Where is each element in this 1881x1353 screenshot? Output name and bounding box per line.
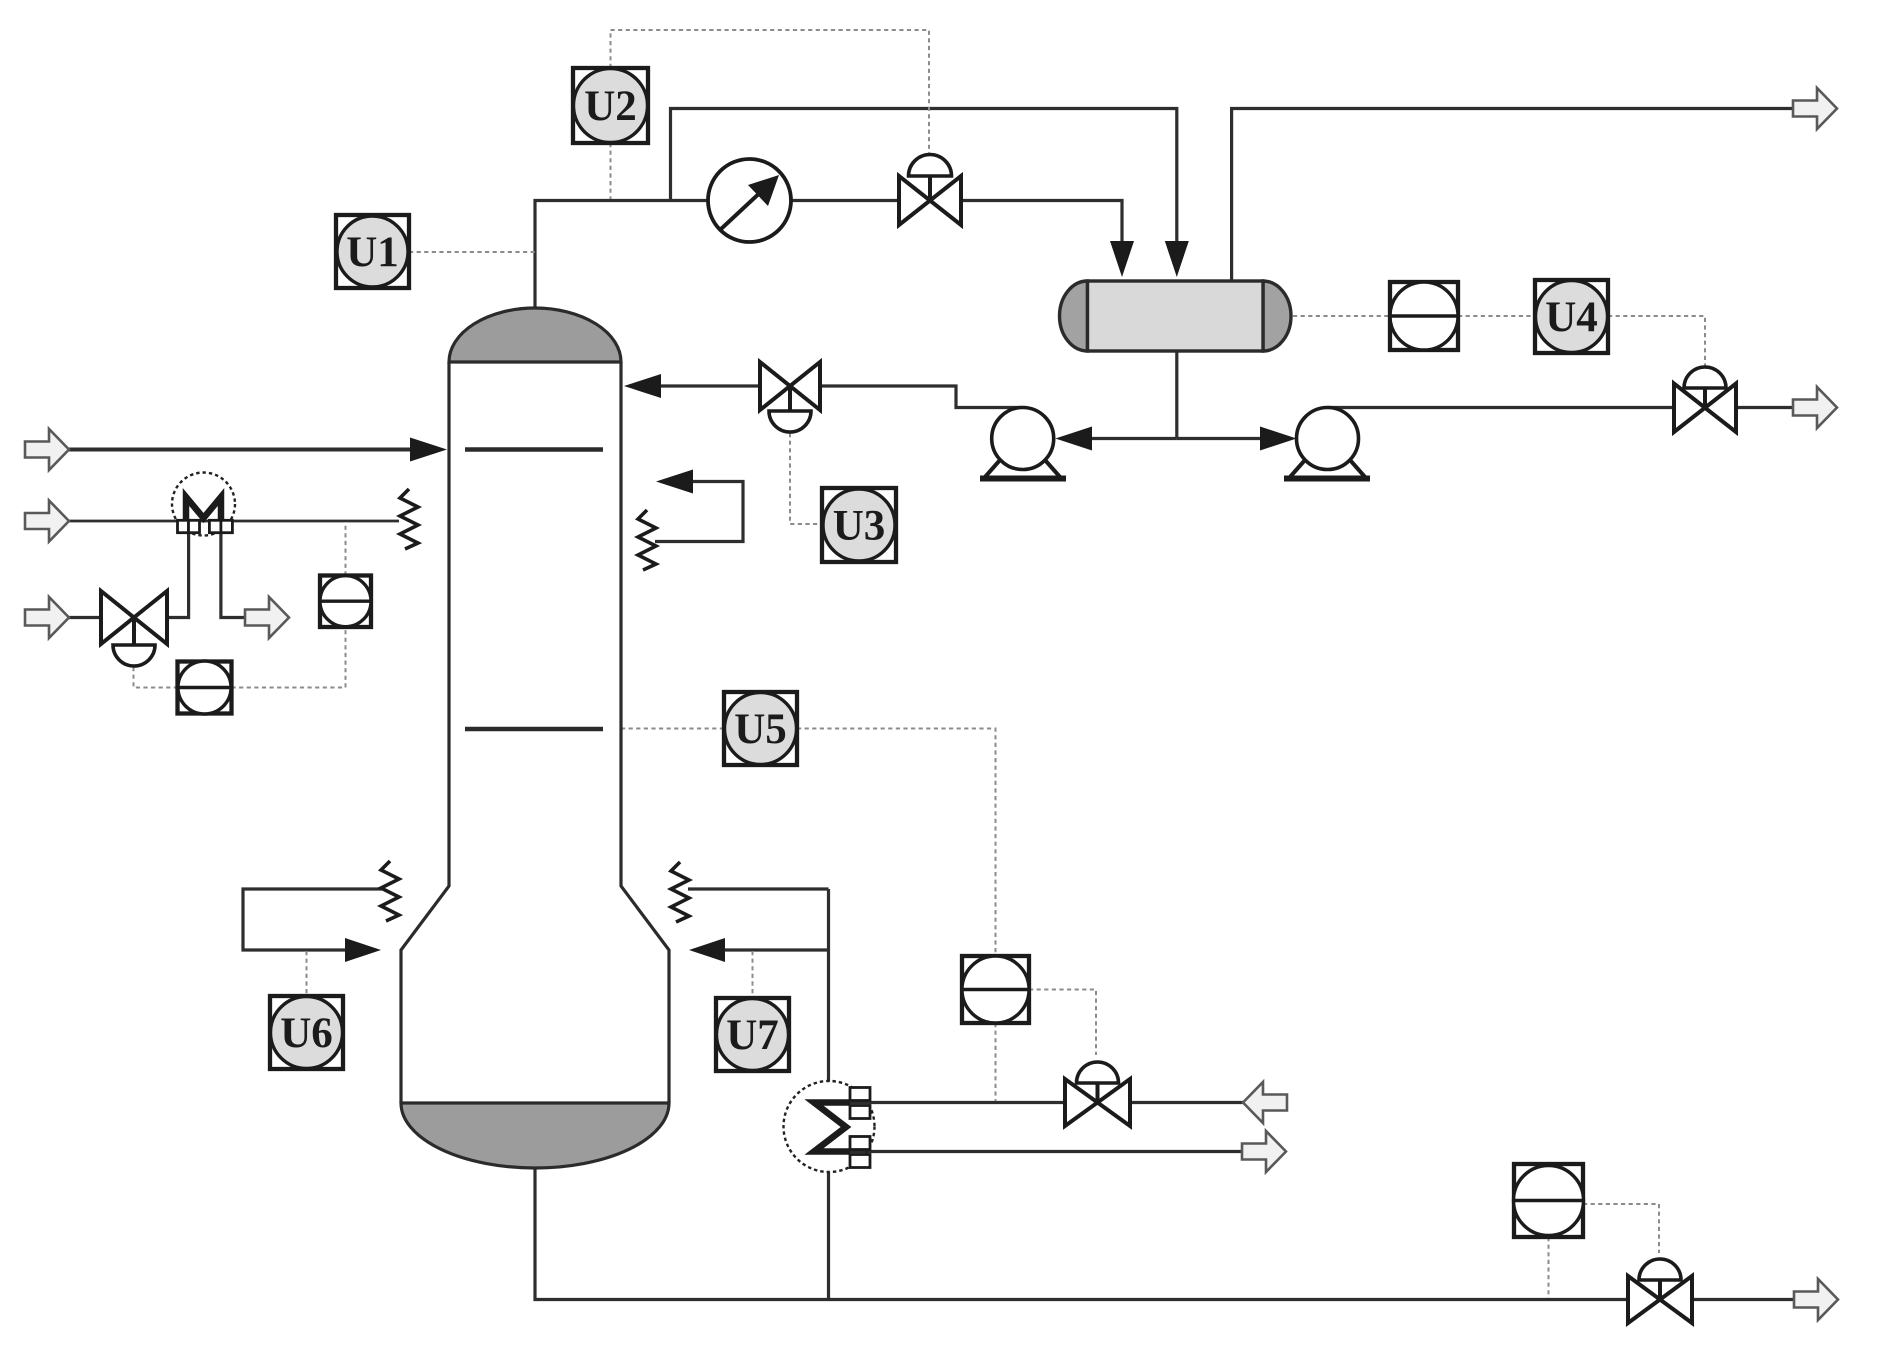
- valve V1 body: [899, 176, 961, 225]
- inlet arrow feed1: [25, 429, 69, 470]
- valve V2 stem: [788, 386, 792, 411]
- wire U2 to overhead line: [610, 143, 612, 199]
- wire mid-right recirculation loop: [655, 482, 743, 542]
- arrowhead into pump P2: [1260, 427, 1297, 451]
- arrowhead lower-left loop into column: [345, 938, 381, 962]
- wire bottom instrument to reboiler line: [995, 1023, 997, 1101]
- arrowhead reflux into column: [624, 374, 661, 398]
- inlet arrow feed3: [25, 597, 69, 638]
- svg-text:U1: U1: [346, 229, 399, 276]
- column bottom dome: [401, 1103, 669, 1168]
- inlet arrow feed2: [25, 501, 69, 542]
- zigzag feed2 at column: [400, 489, 418, 549]
- gauge PI circle: [708, 159, 791, 242]
- valve V6 stem: [1658, 1280, 1662, 1300]
- wire valve V4 to distillate outlet: [1736, 406, 1793, 409]
- wire U5 to bottom instrument: [797, 729, 996, 957]
- outlet arrow top right vent: [1793, 88, 1837, 129]
- arrowhead into drum (from V1): [1110, 241, 1134, 277]
- M device letter: [186, 497, 221, 533]
- outlet arrow reboiler condensate: [1242, 1131, 1286, 1172]
- pump P1 base: [980, 476, 1066, 482]
- wire feed line 3 to valve V3: [69, 616, 101, 619]
- tray 1: [465, 447, 603, 452]
- drum left cap: [1060, 281, 1088, 351]
- svg-text:U2: U2: [584, 83, 637, 130]
- reboiler coil sigma: [814, 1103, 850, 1152]
- svg-text:U4: U4: [1545, 294, 1598, 341]
- reboiler lower flange: [850, 1137, 870, 1150]
- zigzag mid right: [638, 510, 656, 570]
- svg-text:U6: U6: [280, 1010, 333, 1057]
- wire valve V3 actuator to FC box: [134, 667, 178, 688]
- wire FT box to feed line 2: [345, 522, 347, 576]
- wire U2 signal to valve V1 actuator: [611, 30, 930, 153]
- wire reboiler bottom to bottoms line: [827, 1172, 830, 1300]
- wire valve V6 to bottoms outlet: [1692, 1298, 1794, 1301]
- svg-text:U3: U3: [833, 503, 886, 550]
- arrowhead into drum (bypass): [1165, 241, 1189, 277]
- wire valve V3 to M device left leg: [167, 533, 189, 618]
- wire gauge to valve V1: [791, 199, 899, 202]
- wire feed line 1: [69, 448, 416, 452]
- column shell: [401, 362, 669, 1103]
- instrument LC box (bottoms): [1514, 1164, 1584, 1237]
- pump P1 casing: [992, 408, 1054, 470]
- M device right flange: [209, 520, 221, 532]
- wire reflux valve to column: [655, 384, 760, 387]
- arrowhead mid-right loop into column: [656, 470, 693, 494]
- wire M device right leg to small outlet: [221, 533, 245, 618]
- wire FC box to FT box: [232, 627, 346, 688]
- wire reboiler hot outlet lower: [846, 1150, 1242, 1153]
- M device dashed circle: [172, 473, 235, 536]
- reboiler dashed shell: [784, 1081, 875, 1172]
- controller U7: [716, 998, 789, 1071]
- outlet arrow bottoms: [1794, 1279, 1838, 1320]
- svg-text:U7: U7: [726, 1012, 779, 1059]
- valve V3 stem: [132, 618, 136, 646]
- valve V1 stem: [928, 176, 932, 200]
- wire pump P1 discharge to reflux valve: [820, 386, 1023, 408]
- arrowhead into pump P1: [1055, 427, 1092, 451]
- valve V4 stem: [1703, 388, 1707, 408]
- wire bottoms instrument to bottoms line: [1548, 1237, 1550, 1298]
- svg-text:U5: U5: [734, 706, 787, 753]
- zigzag lower left: [381, 861, 399, 921]
- valve V1 actuator dome: [909, 155, 952, 177]
- wire U6 to lower loop: [306, 951, 308, 996]
- wire bottom instrument to valve V5 actuator: [1029, 990, 1096, 1056]
- valve V3 body: [101, 591, 167, 644]
- controller U4: [1535, 280, 1608, 353]
- wire column to reboiler vertical: [827, 889, 830, 1082]
- wire top bypass line: [671, 109, 1177, 251]
- wire drum bottom to pumps junction: [1175, 351, 1178, 439]
- reboiler upper flange: [850, 1088, 870, 1101]
- valve V3 actuator dome (below): [113, 645, 155, 666]
- valve V5 actuator dome: [1077, 1062, 1119, 1083]
- wire bottom-left recirculation loop: [243, 889, 382, 950]
- arrowhead feed1 into column: [410, 438, 447, 462]
- valve V5 body: [1065, 1079, 1130, 1126]
- controller U6: [270, 996, 343, 1069]
- wire drum vent to top right outlet: [1232, 109, 1793, 282]
- wire LI box to U4: [1458, 315, 1535, 317]
- wire junction to pump P1 suction: [1085, 437, 1177, 440]
- wire U4 to valve V4 actuator: [1608, 316, 1705, 366]
- zigzag lower right: [671, 862, 689, 922]
- wire drum level to LI box: [1293, 315, 1390, 317]
- arrowhead lower-right loop into column: [689, 938, 725, 962]
- wire bottoms instrument to valve V6 actuator: [1583, 1204, 1659, 1253]
- controller U5: [724, 692, 797, 765]
- controller U3: [822, 488, 896, 562]
- valve V4 body: [1674, 384, 1736, 433]
- wire pump P2 discharge to valve V4: [1328, 406, 1675, 409]
- wire column bottoms line: [535, 1163, 1628, 1300]
- wire valve V1 to drum inlet: [961, 201, 1122, 251]
- wire column mid to U5: [621, 728, 724, 730]
- valve V2 body: [760, 362, 820, 410]
- instrument FC box (left lower): [178, 661, 232, 714]
- wire valve V5 to hot inlet arrow: [1130, 1101, 1244, 1104]
- wire reflux valve actuator to U3: [790, 433, 822, 524]
- outlet arrow distillate: [1793, 387, 1837, 428]
- controller U1: [336, 215, 409, 288]
- valve V2 actuator dome (below): [769, 411, 811, 432]
- instrument FT box (left upper): [320, 576, 371, 628]
- valve V4 actuator dome: [1684, 367, 1726, 388]
- wire U1 to overhead line: [409, 251, 535, 253]
- wire bottom-right loop upper: [688, 887, 829, 890]
- drum body: [1088, 281, 1264, 351]
- controller U2: [573, 68, 648, 143]
- pump P2 casing: [1297, 408, 1359, 470]
- valve V6 actuator dome: [1639, 1259, 1681, 1280]
- tray 2: [465, 727, 603, 732]
- gauge needle: [721, 189, 764, 229]
- wire feed line 2 through M device: [69, 520, 399, 523]
- valve V5 stem: [1096, 1083, 1100, 1103]
- wire reboiler hot inlet upper: [846, 1101, 1065, 1104]
- column top dome: [449, 308, 621, 362]
- inlet arrow reboiler steam: [1243, 1082, 1287, 1123]
- instrument TT box (mid bottom): [962, 956, 1029, 1023]
- wire junction to pump P2 suction: [1177, 437, 1268, 440]
- pump P2 base: [1284, 476, 1370, 482]
- drum right cap: [1263, 281, 1291, 351]
- wire U7 to lower loop: [752, 951, 754, 998]
- wire overhead vapor from column top: [535, 201, 708, 309]
- M device left flange: [178, 520, 189, 532]
- instrument LT box (drum): [1390, 282, 1458, 350]
- outlet arrow after M device: [245, 597, 289, 638]
- valve V6 body: [1628, 1276, 1692, 1323]
- wire bottom-right loop arrow line: [722, 948, 829, 951]
